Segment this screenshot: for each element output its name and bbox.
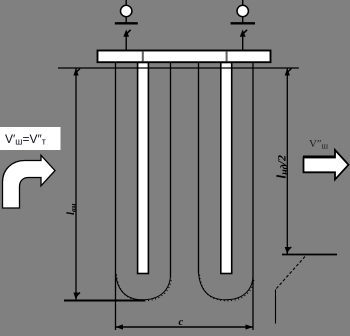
inner tube T2i: [221, 63, 232, 274]
vent valve V2 seat bar: [231, 22, 255, 24]
dimension line D2 (right, half length): [285, 68, 292, 255]
tube sheet joint line left: [142, 52, 144, 62]
vent valve V2 circle: [237, 5, 248, 16]
tube sheet (header plate): [98, 51, 271, 63]
flow arrow A1 (up from tube sheet to valve V1): [123, 30, 130, 51]
dimension line D1 (left, tube length): [73, 68, 80, 300]
outlet block arrow: [303, 150, 349, 180]
break line vertical: [275, 290, 277, 324]
level line (right): [282, 254, 337, 256]
svg-text:с: с: [179, 317, 184, 328]
vent valve V1 seat bar: [115, 22, 138, 24]
svg-text:lнд/2: lнд/2: [274, 155, 291, 178]
svg-text:lвн: lвн: [65, 203, 78, 215]
flow arrow A2 (up from tube sheet to valve V2): [240, 30, 247, 51]
outer tube T2 left wall: [198, 62, 200, 274]
outer tube T1 left wall (also extension line for dimension c): [115, 62, 117, 331]
vent valve V1 circle: [121, 5, 132, 16]
svg-text:V′ш=V″т: V′ш=V″т: [5, 132, 46, 147]
inlet label box: [0, 127, 61, 150]
outer tube T1 rounded bottom: [116, 273, 171, 300]
vent valve V2 stem: [242, 0, 244, 24]
inner tube T1i: [138, 63, 149, 274]
extension line (bottom left): [64, 300, 146, 302]
outer tube T1 right wall: [170, 62, 172, 278]
svg-text:V″ш: V″ш: [309, 138, 329, 151]
extension line (top, below tube sheet): [58, 67, 299, 69]
break line diagonal: [276, 257, 306, 290]
tube sheet joint line right: [226, 52, 228, 62]
outer tube T2 rounded bottom: [199, 273, 254, 300]
inlet curved block arrow: [3, 155, 56, 208]
outer tube T2 right wall (also extension line for dimension c): [252, 62, 254, 331]
vent valve V1 stem: [125, 0, 127, 24]
dimension line D3 (bottom, pitch c): [116, 324, 254, 329]
